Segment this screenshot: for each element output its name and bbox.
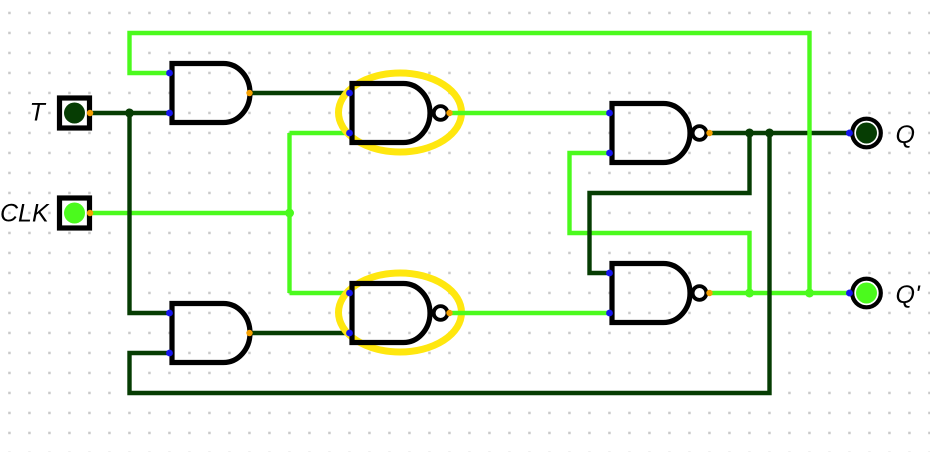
svg-text:T: T <box>30 99 47 127</box>
svg-text:CLK: CLK <box>0 200 50 228</box>
svg-text:Q': Q' <box>896 281 921 309</box>
svg-text:Q: Q <box>896 121 915 149</box>
